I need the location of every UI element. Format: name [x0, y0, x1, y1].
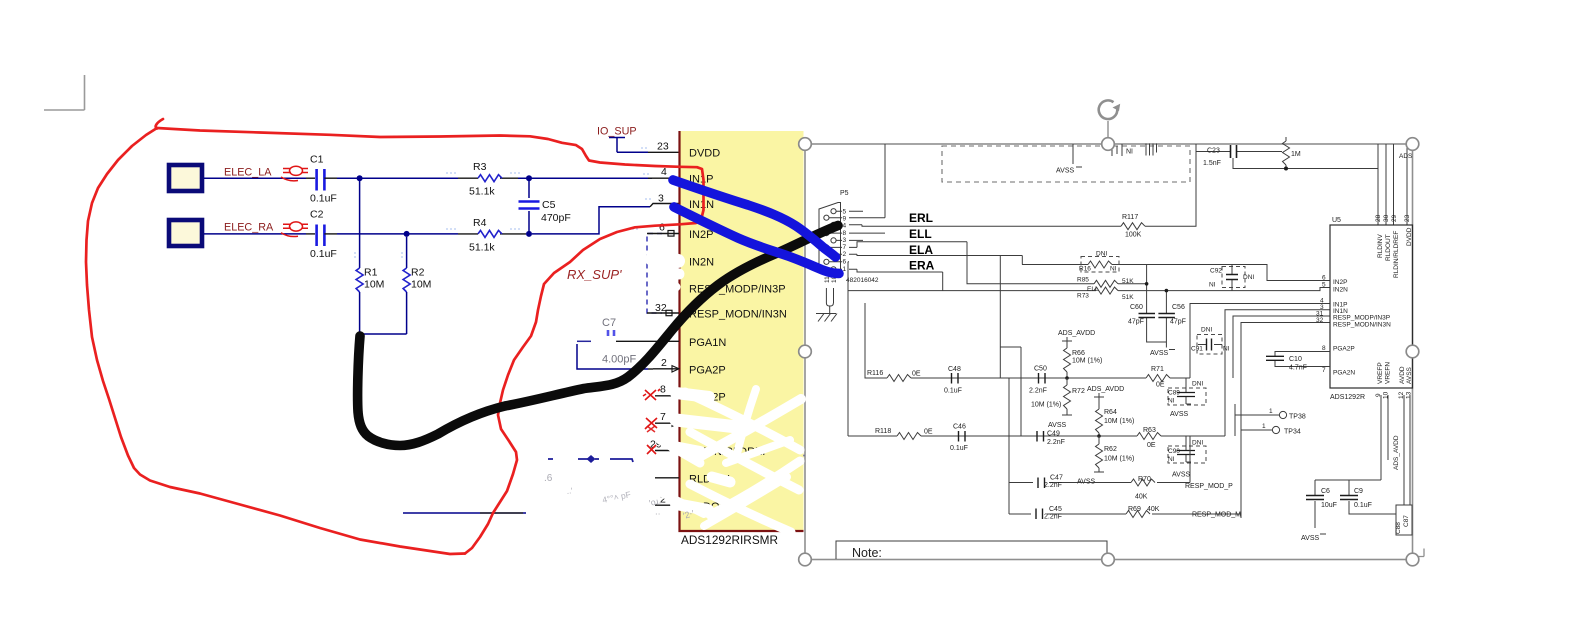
- svg-text:0E: 0E: [924, 429, 933, 436]
- pin RLDINV: [655, 474, 730, 486]
- net ELL: [857, 227, 967, 247]
- IC U5 body: [1330, 217, 1413, 401]
- capacitor C45: [1036, 506, 1062, 521]
- capacitor C7 remnant: [602, 317, 637, 366]
- svg-text:IO_SUP: IO_SUP: [597, 126, 637, 138]
- red X pin 7: [645, 418, 657, 429]
- svg-text:IN2P: IN2P: [689, 229, 713, 241]
- svg-text:ADS1292RIRSMR: ADS1292RIRSMR: [681, 533, 778, 547]
- svg-text:ELA: ELA: [909, 243, 933, 257]
- svg-text:RESP_MODN/IN3N: RESP_MODN/IN3N: [689, 309, 787, 321]
- capacitor NI at handle: [1112, 144, 1133, 156]
- power symbol IO_SUP: [597, 126, 637, 153]
- svg-text:RLDOUT: RLDOUT: [1385, 234, 1392, 261]
- handle bottom-mid: [1102, 553, 1115, 566]
- svg-text:RESP_MODN/IN3N: RESP_MODN/IN3N: [1333, 322, 1391, 329]
- resistor R62: [1077, 434, 1134, 485]
- ground P5: [816, 314, 837, 322]
- pin 32 RESP_MODN/IN3N: [647, 302, 787, 321]
- svg-text:R73: R73: [1077, 293, 1089, 300]
- svg-text:C49: C49: [1047, 431, 1060, 438]
- svg-text:0E: 0E: [1147, 442, 1156, 449]
- wire row2: [848, 435, 1225, 437]
- wire AVSS rail: [1233, 158, 1378, 171]
- pin 4 IN1P: [648, 166, 713, 186]
- svg-text:TP34: TP34: [1284, 429, 1301, 436]
- svg-text:VREFN: VREFN: [1385, 362, 1392, 384]
- svg-text:ADS_AVDD: ADS_AVDD: [1058, 330, 1095, 337]
- power ADS_AVDD R66: [1058, 330, 1102, 378]
- wire RLD verticals to U5: [1378, 144, 1413, 225]
- resistor R118: [875, 428, 933, 440]
- svg-text:.6: .6: [544, 473, 553, 484]
- resistor R72: [1031, 376, 1085, 429]
- svg-text:40K: 40K: [1147, 506, 1160, 513]
- test point TP34: [1241, 423, 1301, 436]
- pin 1 PGA1N: [653, 330, 726, 350]
- svg-text:RLDIN/RLDREF: RLDIN/RLDREF: [1393, 231, 1400, 278]
- svg-text:40K: 40K: [1135, 494, 1148, 501]
- svg-text:29: 29: [1391, 214, 1398, 222]
- P5 pin numbers and stubs: [829, 209, 885, 274]
- svg-text:RLDINV: RLDINV: [1377, 233, 1384, 258]
- capacitor C91 DNI: [1191, 327, 1230, 355]
- wire C2 to R4 node: [337, 233, 458, 235]
- svg-text:C6: C6: [1321, 488, 1330, 495]
- svg-text:DNI: DNI: [1192, 381, 1203, 388]
- svg-text:9: 9: [843, 216, 847, 223]
- net ERA: [857, 259, 943, 291]
- svg-text:4.7nF: 4.7nF: [1289, 365, 1307, 372]
- capacitor C48: [944, 366, 962, 395]
- svg-text:DNI: DNI: [1201, 327, 1212, 334]
- capacitor C6: [1301, 480, 1337, 542]
- wire C1 to R3 node: [337, 177, 458, 179]
- resistor R73: [1077, 287, 1232, 301]
- svg-text:Note:: Note:: [852, 546, 882, 560]
- svg-text:IN1N: IN1N: [689, 199, 714, 211]
- svg-text:R1: R1: [364, 267, 378, 279]
- svg-text:5: 5: [843, 209, 847, 216]
- wire IN1N route: [532, 204, 679, 234]
- capacitor C1: [310, 154, 337, 205]
- svg-text:C45: C45: [1049, 506, 1062, 513]
- resistor 1M: [1283, 137, 1301, 168]
- svg-text:DNI: DNI: [1096, 251, 1107, 258]
- svg-text:R16: R16: [1079, 266, 1091, 273]
- P5 mount pins 11 10: [824, 275, 838, 313]
- svg-text:2.2nF: 2.2nF: [1044, 514, 1062, 521]
- wire RLD remnant: [403, 512, 526, 514]
- pin RLDIN/RLDREF: [650, 439, 769, 459]
- capacitor C9: [1340, 488, 1396, 514]
- wire pin9 up: [884, 144, 886, 218]
- svg-text:4: 4: [843, 223, 847, 230]
- svg-text:6: 6: [843, 259, 847, 266]
- wire pin6 down: [848, 262, 1096, 436]
- svg-text:R85: R85: [1077, 277, 1089, 284]
- U5 labels left: [1333, 279, 1391, 377]
- svg-text:10M (1%): 10M (1%): [1104, 456, 1134, 463]
- label RESP_MOD_P: [1185, 483, 1233, 490]
- svg-text:DNI: DNI: [1243, 274, 1254, 281]
- P5 pin circles: [824, 209, 836, 272]
- resistor R69: [1126, 506, 1160, 518]
- resistor R70: [1131, 476, 1155, 501]
- svg-text:RESP_MODP/IN3P: RESP_MODP/IN3P: [1333, 315, 1390, 322]
- svg-text:4: 4: [661, 166, 667, 178]
- red pen loop: [86, 119, 704, 554]
- resistor R3: [458, 161, 518, 198]
- svg-text:AVSS: AVSS: [1170, 411, 1188, 418]
- svg-text:C23: C23: [1207, 148, 1220, 155]
- svg-text:ADS1292R: ADS1292R: [1330, 394, 1365, 401]
- svg-text:8: 8: [843, 230, 847, 237]
- svg-text:RESP_MOD_M: RESP_MOD_M: [1192, 512, 1241, 519]
- svg-text:51.1k: 51.1k: [469, 242, 495, 254]
- svg-text:VREFP: VREFP: [1377, 362, 1384, 384]
- pin 8: [655, 384, 726, 404]
- pin 5 IN2N: [655, 250, 714, 269]
- svg-text:IN2N: IN2N: [689, 257, 714, 269]
- capacitor C23: [1196, 145, 1282, 167]
- svg-text:51K: 51K: [1122, 278, 1134, 285]
- svg-text:′oɹ..: ′oɹ..: [648, 495, 664, 508]
- wire row1: [865, 303, 1190, 378]
- handle mid-left: [799, 345, 812, 358]
- erc marker dots: [355, 148, 653, 260]
- svg-text:C60: C60: [1130, 304, 1143, 311]
- svg-text:⋅⋅: ⋅⋅: [655, 509, 660, 519]
- wire ELEC_RA to C2: [204, 233, 315, 235]
- svg-text:C91: C91: [1191, 346, 1203, 353]
- net label RX_SUP: [567, 267, 622, 282]
- svg-text:3: 3: [843, 237, 847, 244]
- handle bottom-right: [1406, 553, 1419, 566]
- svg-text:NI: NI: [1168, 398, 1175, 405]
- svg-text:51.1k: 51.1k: [469, 186, 495, 198]
- wire PGA1N remnant: [577, 340, 653, 342]
- svg-text:AVSS: AVSS: [1048, 422, 1066, 429]
- resistor R85: [967, 242, 1147, 293]
- svg-text:DVDD: DVDD: [1406, 227, 1413, 246]
- svg-text:R71: R71: [1151, 366, 1164, 373]
- U5 labels bottom rotated: [1375, 362, 1413, 399]
- wire ELEC_LA to C1: [204, 177, 315, 179]
- svg-text:AVSS: AVSS: [1172, 472, 1190, 479]
- ground AVSS in region: [1056, 144, 1082, 175]
- svg-text:R70: R70: [1138, 476, 1151, 483]
- svg-text:R3: R3: [473, 161, 487, 173]
- svg-text:C92: C92: [1210, 268, 1222, 275]
- svg-text:ELL: ELL: [909, 227, 932, 241]
- wire PGA2P remnant: [577, 344, 653, 369]
- capacitor C89 DNI: [1168, 378, 1206, 418]
- svg-text:6: 6: [1322, 275, 1326, 282]
- gray whited-out remnants: [544, 473, 696, 521]
- svg-text:1: 1: [1262, 423, 1266, 430]
- power ADS_AVDD R64: [1087, 386, 1134, 436]
- pin RESP_MODP/IN3P: [655, 284, 786, 296]
- handle mid-right: [1406, 345, 1419, 358]
- svg-text:47pF: 47pF: [1170, 319, 1186, 326]
- blue marker stroke upper: [673, 180, 836, 257]
- svg-text:C5: C5: [542, 199, 556, 211]
- red X remnant upper: [647, 426, 655, 432]
- svg-text:R118: R118: [875, 428, 891, 435]
- blue marker stroke lower: [674, 207, 839, 274]
- svg-text:R64: R64: [1104, 409, 1117, 416]
- wire IN2P: [1245, 265, 1330, 282]
- svg-text:0.1uF: 0.1uF: [1354, 502, 1372, 509]
- svg-text:R2: R2: [411, 267, 425, 279]
- node C5 bottom: [526, 231, 532, 237]
- svg-text:2.2nF: 2.2nF: [1029, 388, 1047, 395]
- capacitor C5: [519, 181, 571, 231]
- svg-text:1.5nF: 1.5nF: [1203, 160, 1221, 167]
- svg-text:DNI: DNI: [1192, 440, 1203, 447]
- black marker stroke: [358, 226, 838, 446]
- svg-text:..′: ..′: [566, 486, 574, 496]
- svg-text:5: 5: [1322, 282, 1326, 289]
- pin 6 IN2P: [647, 222, 713, 242]
- svg-text:R69: R69: [1128, 506, 1141, 513]
- svg-text:C10: C10: [1289, 356, 1302, 363]
- IC U2 ADS1292R body: [680, 131, 804, 531]
- svg-text:AVSS: AVSS: [1301, 535, 1319, 542]
- svg-text:47pF: 47pF: [1128, 319, 1144, 326]
- svg-text:C7: C7: [602, 317, 616, 329]
- capacitor C10: [1266, 345, 1330, 374]
- svg-text:ADS: ADS: [1399, 153, 1413, 160]
- svg-text:R116: R116: [867, 370, 883, 377]
- svg-text:NI: NI: [1126, 149, 1133, 156]
- handle top-left: [799, 138, 812, 151]
- connector P5 body: [819, 190, 849, 271]
- svg-text:32: 32: [1316, 317, 1324, 324]
- svg-text:8: 8: [1322, 345, 1326, 352]
- resistor R117: [1121, 144, 1196, 239]
- svg-text:R63: R63: [1143, 427, 1156, 434]
- svg-text:AVSS: AVSS: [1150, 350, 1168, 357]
- svg-text:10M (1%): 10M (1%): [1072, 358, 1102, 365]
- capacitor C50: [1029, 366, 1047, 395]
- svg-text:10M (1%): 10M (1%): [1104, 418, 1134, 425]
- svg-text:10M: 10M: [364, 279, 384, 291]
- svg-text:P5: P5: [840, 190, 849, 197]
- node C5 top: [526, 175, 532, 181]
- svg-text:ADS_AVDD: ADS_AVDD: [1393, 435, 1400, 470]
- svg-text:470pF: 470pF: [541, 212, 571, 224]
- svg-text:NI: NI: [1168, 456, 1175, 463]
- page corner mark: [44, 75, 85, 110]
- svg-text:NI: NI: [1209, 282, 1216, 289]
- svg-text:4°°˄ pF: 4°°˄ pF: [601, 489, 631, 505]
- svg-text:C87: C87: [1403, 515, 1410, 527]
- svg-text:100K: 100K: [1125, 232, 1142, 239]
- resistor R71: [1146, 366, 1170, 389]
- svg-text:AVSS: AVSS: [1056, 168, 1074, 175]
- capacitor C47: [1038, 475, 1063, 490]
- hatched NI symbol: [1146, 144, 1157, 156]
- svg-text:R117: R117: [1122, 214, 1138, 221]
- wire vrefs bottom: [1315, 395, 1410, 505]
- net ERL: [862, 211, 1121, 226]
- svg-text:28: 28: [1375, 214, 1382, 222]
- svg-text:DVDD: DVDD: [689, 148, 720, 160]
- wire IN2N: [1232, 282, 1330, 291]
- svg-text:1M: 1M: [1291, 151, 1301, 158]
- svg-text:C88: C88: [1395, 522, 1402, 534]
- wire R1 R2 bottom join: [357, 331, 407, 337]
- svg-text:R72: R72: [1072, 388, 1085, 395]
- svg-text:2.2nF: 2.2nF: [1044, 482, 1062, 489]
- capacitor C60: [1128, 265, 1166, 343]
- capacitor C90 DNI: [1168, 436, 1206, 479]
- svg-text:R62: R62: [1104, 446, 1117, 453]
- wire R3 to pin4: [518, 177, 652, 179]
- svg-text:0E: 0E: [912, 371, 921, 378]
- svg-text:C56: C56: [1172, 304, 1185, 311]
- pin 2 PGA2P: [653, 357, 726, 377]
- svg-text:C89: C89: [1168, 390, 1180, 397]
- U5 labels top rotated: [1375, 214, 1413, 278]
- capacitors C87 C88: [1395, 505, 1412, 535]
- svg-text:482016042: 482016042: [846, 277, 879, 284]
- svg-text:R4: R4: [473, 217, 487, 229]
- part number ADS1292RIRSMR: [681, 533, 778, 547]
- corner mark bottom right: [1416, 549, 1424, 557]
- svg-text:PGA2N: PGA2N: [1333, 370, 1355, 377]
- svg-text:7: 7: [660, 411, 666, 423]
- test point TP38: [1235, 404, 1306, 436]
- nested wires IN1P IN1N RESP: [1190, 298, 1330, 519]
- pin 3 IN1N: [658, 193, 714, 212]
- handle top-mid: [1102, 138, 1115, 151]
- wire DVDD pin23: [617, 151, 679, 153]
- svg-text:AVSS: AVSS: [1406, 366, 1413, 384]
- svg-text:10M (1%): 10M (1%): [1031, 402, 1061, 409]
- svg-text:C90: C90: [1168, 448, 1180, 455]
- net label ELEC_RA: [224, 222, 274, 234]
- svg-text:6: 6: [659, 222, 665, 234]
- svg-text:0.1uF: 0.1uF: [310, 193, 337, 205]
- svg-text:IN2P: IN2P: [1333, 279, 1347, 286]
- svg-text:23: 23: [657, 141, 669, 153]
- svg-text:30: 30: [1383, 214, 1390, 222]
- capacitor C56: [1150, 289, 1186, 357]
- svg-text:PGA1N: PGA1N: [689, 337, 726, 349]
- svg-text:0E: 0E: [1156, 382, 1165, 389]
- svg-text:ERL: ERL: [909, 211, 933, 225]
- pin 7: [655, 411, 726, 431]
- resistor R2: [403, 237, 431, 334]
- svg-text:RX_SUP': RX_SUP': [567, 267, 622, 282]
- svg-text:TP38: TP38: [1289, 414, 1306, 421]
- resistor R116: [867, 370, 921, 382]
- wire row4: [1009, 514, 1241, 518]
- svg-text:IN2N: IN2N: [1333, 287, 1348, 294]
- svg-text:2.2nF: 2.2nF: [1047, 439, 1065, 446]
- svg-text:U5: U5: [1332, 217, 1341, 224]
- svg-text:C47: C47: [1050, 475, 1063, 482]
- resistor R16 DNI: [1022, 251, 1267, 273]
- net ELA: [857, 243, 1022, 436]
- red X pin 29: [647, 445, 656, 454]
- svg-text:ELEC_RA: ELEC_RA: [224, 222, 274, 234]
- connector symbol LA: [281, 166, 308, 181]
- svg-text:7: 7: [1322, 367, 1326, 374]
- svg-text:NI: NI: [1223, 346, 1230, 353]
- resistor R63: [1137, 427, 1161, 449]
- svg-text:51K: 51K: [1122, 294, 1134, 301]
- svg-text:PGA2P: PGA2P: [689, 365, 726, 377]
- svg-text:23: 23: [1404, 214, 1411, 222]
- svg-text:C50: C50: [1034, 366, 1047, 373]
- svg-text:C46: C46: [953, 424, 966, 431]
- svg-text:0.1uF: 0.1uF: [310, 248, 337, 260]
- svg-text:PGA2P: PGA2P: [1333, 346, 1355, 353]
- svg-text:ERA: ERA: [909, 259, 935, 273]
- connector symbol RA: [281, 222, 308, 237]
- handle top-right: [1406, 138, 1419, 151]
- part number 482016042: [846, 277, 879, 284]
- svg-text:10M: 10M: [411, 279, 431, 291]
- node RA junction: [404, 231, 410, 237]
- svg-text:3: 3: [658, 193, 664, 205]
- embedded picture frame: [805, 144, 1413, 560]
- svg-text:ELEC_LA: ELEC_LA: [224, 167, 272, 179]
- capacitor C92 DNI: [1209, 265, 1254, 291]
- svg-text:13: 13: [1406, 391, 1413, 399]
- svg-text:2: 2: [661, 357, 667, 369]
- net label ELEC_LA: [224, 167, 272, 179]
- terminal ELEC_RA pad: [169, 220, 202, 246]
- pin RLDOUT: [655, 494, 735, 514]
- svg-text:4.00pF: 4.00pF: [602, 354, 637, 366]
- svg-text:RESP_MOD_P: RESP_MOD_P: [1185, 483, 1233, 490]
- svg-text:C1: C1: [310, 154, 324, 166]
- svg-text:C2: C2: [310, 209, 324, 221]
- svg-text:NI: NI: [1110, 266, 1117, 273]
- svg-text:0.1uF: 0.1uF: [944, 388, 962, 395]
- svg-text:10uF: 10uF: [1321, 502, 1337, 509]
- node LA junction: [357, 175, 363, 181]
- resistor R1: [356, 181, 384, 334]
- resistor R4: [458, 217, 526, 254]
- svg-text:7: 7: [843, 244, 847, 251]
- svg-text:0.1uF: 0.1uF: [950, 445, 968, 452]
- label RESP_MOD_M: [1192, 512, 1241, 519]
- rotation handle: [1099, 100, 1120, 144]
- pin 23 DVDD: [657, 141, 720, 160]
- svg-text:AVDD: AVDD: [1399, 366, 1406, 384]
- svg-text:ADS_AVDD: ADS_AVDD: [1087, 386, 1124, 393]
- wire row3: [1009, 378, 1190, 514]
- capacitor C49: [1037, 431, 1065, 447]
- note box: [836, 541, 1107, 560]
- svg-text:1: 1: [1269, 408, 1273, 415]
- svg-text:C48: C48: [948, 366, 961, 373]
- white-out scribbles over chip: [652, 258, 801, 532]
- capacitor C2: [310, 209, 337, 261]
- svg-text:2: 2: [843, 251, 847, 258]
- dashed NI region: [942, 146, 1190, 182]
- svg-text:32: 32: [655, 302, 667, 314]
- dashed bracket pins 6-32: [647, 234, 662, 314]
- blue dashed annotation wire: [548, 455, 838, 481]
- capacitor C46: [950, 424, 968, 453]
